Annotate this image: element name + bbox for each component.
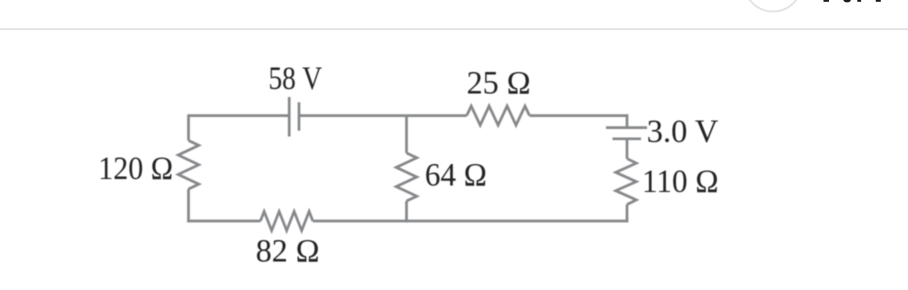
header avatar circle (cropped at top) <box>744 0 802 12</box>
wire: top right segment (25-ohm resistor to right corner) <box>530 114 629 117</box>
svg-text:3.0 V: 3.0 V <box>647 114 719 150</box>
wire: top left segment (left corner to battery) <box>189 114 290 117</box>
wire: right branch top segment (corner down to battery) <box>626 114 629 127</box>
resistor 110 ohm zigzag <box>616 159 637 205</box>
wire: middle branch top segment <box>405 116 408 153</box>
wire: left branch bottom segment <box>187 189 190 222</box>
battery 3.0 V long plate <box>606 126 647 129</box>
wire: left branch top segment <box>187 114 190 140</box>
wire: right branch bottom segment <box>626 205 629 223</box>
battery 58 V short plate <box>298 102 301 130</box>
resistor 25 ohm zigzag <box>467 106 530 125</box>
resistor 120 ohm zigzag <box>178 141 199 190</box>
resistor 64 ohm zigzag <box>396 153 417 201</box>
svg-text:82 Ω: 82 Ω <box>256 233 320 269</box>
header cropped text glyph bottoms <box>824 0 881 2</box>
battery 58 V long plate <box>288 97 291 137</box>
battery 3.0 V short plate <box>613 137 642 140</box>
resistor 82 ohm zigzag <box>260 211 312 230</box>
wire: bottom right segment (82-ohm resistor to right corner, through middle node) <box>313 220 628 223</box>
wire: middle branch bottom segment <box>405 201 408 222</box>
svg-text:64 Ω: 64 Ω <box>425 157 487 193</box>
svg-text:110 Ω: 110 Ω <box>642 164 719 200</box>
svg-text:120 Ω: 120 Ω <box>98 151 173 187</box>
wire: right branch middle segment (battery to 110-ohm resistor) <box>626 139 629 159</box>
svg-text:58 V: 58 V <box>269 61 323 97</box>
wire: bottom left segment (left corner to 82-ohm resistor) <box>187 220 260 223</box>
wire: top middle segment (battery to 25-ohm resistor, through node at middle branch) <box>299 114 467 117</box>
svg-text:25 Ω: 25 Ω <box>467 66 531 102</box>
header separator rule <box>0 28 908 30</box>
